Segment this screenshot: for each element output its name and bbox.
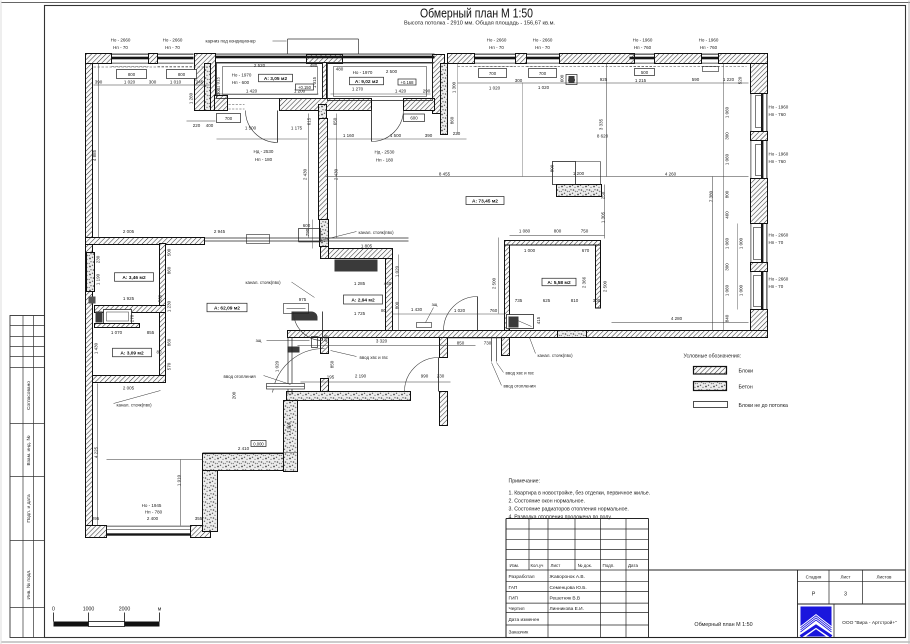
wall: right exterior seg2 bbox=[751, 132, 768, 141]
svg-text:245: 245 bbox=[196, 80, 204, 85]
svg-text:860: 860 bbox=[167, 338, 172, 346]
wall: kitchen door wall upper bbox=[321, 338, 329, 354]
fixture shaft a bbox=[96, 312, 103, 323]
svg-text:0: 0 bbox=[52, 607, 55, 613]
low wall room309 bbox=[95, 324, 140, 328]
svg-text:1 220: 1 220 bbox=[723, 77, 735, 82]
left strip row 4 bbox=[10, 367, 45, 369]
svg-text:Инв. № подл.: Инв. № подл. bbox=[26, 570, 32, 600]
ext line w4 bbox=[522, 83, 524, 177]
svg-text:Чертил: Чертил bbox=[509, 606, 525, 612]
svg-text:1 805: 1 805 bbox=[361, 244, 373, 249]
dim row loggia1 bbox=[217, 93, 319, 95]
window bottom-left bbox=[107, 526, 191, 536]
svg-text:1 260: 1 260 bbox=[189, 92, 194, 104]
svg-text:480: 480 bbox=[310, 63, 318, 68]
svg-text:А: 3,09 м2: А: 3,09 м2 bbox=[120, 350, 144, 356]
svg-text:Нп - 180: Нп - 180 bbox=[376, 158, 394, 163]
wall: top right segment a bbox=[448, 54, 475, 64]
window W2 top-left bbox=[158, 54, 194, 66]
svg-text:480: 480 bbox=[336, 67, 344, 72]
svg-text:1 060: 1 060 bbox=[725, 284, 730, 296]
sink inner bbox=[287, 308, 306, 310]
svg-text:600: 600 bbox=[410, 116, 418, 121]
row line bbox=[506, 569, 649, 571]
dim row 2410 bbox=[203, 452, 298, 454]
svg-text:ГИП: ГИП bbox=[509, 596, 519, 602]
window right wall R3 bbox=[751, 224, 767, 263]
sheet edge bottom bbox=[1, 641, 910, 643]
svg-text:1 175: 1 175 bbox=[291, 126, 303, 131]
svg-text:Нп - 70: Нп - 70 bbox=[769, 240, 784, 245]
svg-text:2 190: 2 190 bbox=[355, 374, 367, 379]
svg-text:2 500: 2 500 bbox=[492, 277, 497, 289]
bath vanity box bbox=[507, 315, 534, 329]
svg-text:Лист: Лист bbox=[551, 563, 561, 568]
wall: kitchen-living wall top concrete bbox=[319, 105, 327, 119]
svg-text:Подп. и дата: Подп. и дата bbox=[26, 494, 32, 523]
tb col stadia bbox=[828, 570, 830, 604]
svg-text:ввод хвс и гвс: ввод хвс и гвс bbox=[506, 371, 535, 376]
wall: wc right bbox=[386, 259, 393, 331]
left strip divider b bbox=[33, 316, 35, 638]
svg-text:Нп - 70: Нп - 70 bbox=[113, 45, 128, 50]
dim 2430 v right bbox=[336, 114, 338, 238]
svg-text:Нп - 780: Нп - 780 bbox=[145, 510, 163, 515]
dim row left windows bbox=[94, 84, 211, 86]
radiator 700 kitchen bbox=[217, 114, 241, 123]
radiator 800 b bbox=[167, 70, 197, 79]
left strip section 0 bbox=[10, 423, 45, 425]
loggia1 inner box bbox=[217, 63, 323, 99]
row line bbox=[506, 591, 649, 593]
door loggia2 bbox=[372, 110, 404, 142]
svg-text:800: 800 bbox=[550, 164, 555, 172]
svg-text:440: 440 bbox=[384, 281, 392, 286]
legend blocks symbol bbox=[694, 367, 727, 375]
svg-text:4 260: 4 260 bbox=[665, 172, 677, 177]
concrete: lower horizontal band bbox=[203, 454, 296, 471]
tb col list bbox=[862, 570, 864, 604]
svg-text:3 335: 3 335 bbox=[599, 118, 604, 130]
logo Вира-Артстрой bbox=[801, 607, 832, 637]
room area А: 5,58 м2 bbox=[542, 278, 576, 286]
wall: right exterior seg4 bbox=[751, 263, 768, 272]
svg-text:760: 760 bbox=[490, 308, 498, 313]
radiator 700 c bbox=[479, 69, 507, 78]
svg-text:700: 700 bbox=[489, 71, 497, 76]
loggia2 inner box bbox=[328, 63, 433, 101]
level +0.150 bbox=[296, 84, 314, 90]
svg-text:Стадия: Стадия bbox=[806, 575, 822, 580]
svg-text:зщ: зщ bbox=[256, 338, 262, 343]
svg-text:Нп - 70: Нп - 70 bbox=[489, 45, 504, 50]
radiator 500 bbox=[635, 69, 655, 76]
radiator right wall 4 bbox=[754, 276, 763, 307]
radiator small top-right bbox=[703, 67, 719, 72]
wall: top right segment b bbox=[516, 54, 527, 64]
svg-text:295: 295 bbox=[92, 516, 100, 521]
svg-text:1 305: 1 305 bbox=[601, 211, 606, 223]
svg-text:2 500: 2 500 bbox=[603, 280, 608, 292]
row line bbox=[506, 581, 649, 583]
svg-text:А: 5,58 м2: А: 5,58 м2 bbox=[547, 280, 571, 286]
door hall bbox=[444, 297, 478, 331]
svg-text:1 060: 1 060 bbox=[725, 153, 730, 165]
svg-text:Решетняк В.В: Решетняк В.В bbox=[550, 596, 581, 602]
ввод отопления 1 bbox=[224, 374, 291, 385]
title block row line bbox=[506, 528, 649, 530]
radiator 600 living bbox=[404, 114, 425, 122]
svg-text:3 320: 3 320 bbox=[376, 339, 388, 344]
wall: bottom-left wall east bbox=[191, 526, 211, 538]
svg-text:1 420: 1 420 bbox=[395, 89, 407, 94]
svg-text:2000: 2000 bbox=[119, 607, 131, 613]
radiator entrance striped bbox=[267, 384, 305, 390]
door entrance bbox=[405, 358, 439, 392]
room area А: 2,94 м2 bbox=[344, 295, 383, 304]
svg-text:Но - 2660: Но - 2660 bbox=[533, 38, 553, 43]
pipe riser b bbox=[496, 338, 498, 362]
svg-text:2 005: 2 005 bbox=[123, 229, 135, 234]
title block outer bbox=[506, 519, 906, 638]
wall: right exterior seg3 bbox=[751, 179, 768, 224]
wall: top right segment d bbox=[655, 54, 702, 64]
svg-text:1 910: 1 910 bbox=[177, 474, 182, 486]
dim row below bottom wall bbox=[448, 337, 504, 339]
svg-text:канал. стояк(пвх): канал. стояк(пвх) bbox=[538, 353, 574, 358]
wall: wc top bbox=[328, 249, 393, 259]
svg-text:2 500: 2 500 bbox=[386, 69, 398, 74]
left strip row 3 bbox=[10, 356, 45, 358]
svg-text:канал. стояк(пвх): канал. стояк(пвх) bbox=[117, 403, 153, 408]
svg-text:855: 855 bbox=[147, 330, 155, 335]
concrete: entrance band bbox=[287, 392, 411, 401]
svg-text:590: 590 bbox=[692, 77, 700, 82]
wall: stub below bottom wall bbox=[502, 338, 510, 356]
dim 1910 v bbox=[180, 460, 182, 526]
svg-text:зщ: зщ bbox=[432, 302, 438, 307]
svg-text:2 430: 2 430 bbox=[334, 168, 339, 180]
svg-text:Кол.уч: Кол.уч bbox=[531, 563, 544, 568]
wall: concrete sliver in corner pier bbox=[205, 64, 211, 111]
radiator 700 d bbox=[529, 69, 557, 78]
tb mid top bbox=[649, 569, 906, 571]
svg-text:80: 80 bbox=[156, 350, 162, 355]
svg-text:800: 800 bbox=[725, 190, 730, 198]
svg-text:1 215: 1 215 bbox=[635, 78, 647, 83]
svg-text:460: 460 bbox=[725, 211, 730, 219]
svg-text:8 620: 8 620 bbox=[597, 134, 609, 139]
svg-text:А: 3,05 м2: А: 3,05 м2 bbox=[264, 76, 288, 82]
svg-text:Взам. инд. №: Взам. инд. № bbox=[26, 436, 32, 466]
svg-text:860: 860 bbox=[167, 266, 172, 274]
svg-text:390: 390 bbox=[425, 133, 433, 138]
window right wall R4 bbox=[751, 272, 767, 310]
svg-text:Бетон: Бетон bbox=[739, 385, 753, 391]
svg-text:1 500: 1 500 bbox=[390, 133, 402, 138]
ввод хвс и гвс 2 bbox=[497, 363, 535, 376]
svg-text:520: 520 bbox=[738, 76, 743, 84]
svg-text:1 070: 1 070 bbox=[111, 330, 123, 335]
svg-text:670: 670 bbox=[582, 248, 590, 253]
dim row doors left bbox=[217, 138, 308, 140]
tb logo cell right bbox=[833, 604, 835, 638]
svg-text:1 300: 1 300 bbox=[452, 81, 457, 93]
wall: concrete section in bottom wall bbox=[558, 331, 587, 338]
svg-text:800: 800 bbox=[128, 72, 136, 77]
row line bbox=[506, 602, 649, 604]
title block row line bbox=[506, 549, 649, 551]
fixture shaft b bbox=[89, 297, 96, 304]
left strip row 1 bbox=[10, 336, 45, 338]
svg-text:700: 700 bbox=[225, 116, 233, 121]
svg-text:Изм.: Изм. bbox=[510, 563, 520, 568]
svg-text:Лист: Лист bbox=[841, 575, 852, 580]
scale bar bbox=[54, 613, 160, 627]
svg-text:1 500: 1 500 bbox=[245, 126, 257, 131]
svg-text:560: 560 bbox=[158, 294, 163, 302]
svg-text:615: 615 bbox=[307, 117, 312, 125]
svg-text:600: 600 bbox=[560, 74, 565, 82]
corridor line b bbox=[205, 240, 409, 242]
sheet edge left bbox=[0, 1, 2, 644]
svg-text:Нд - 2530: Нд - 2530 bbox=[254, 149, 274, 154]
карниз под кондиционер bbox=[206, 39, 287, 44]
fixture wc seat dark bbox=[292, 312, 318, 321]
svg-text:1 015: 1 015 bbox=[216, 76, 221, 88]
elec box зщ kitchen bbox=[312, 337, 318, 348]
title block col line bbox=[528, 519, 530, 571]
svg-text:4 225: 4 225 bbox=[94, 446, 99, 458]
tb lower col bbox=[547, 570, 549, 638]
wall: corner pier left of loggia bbox=[195, 54, 216, 111]
column ext h bbox=[576, 161, 601, 163]
radiator right wall 3 bbox=[754, 228, 763, 260]
wall: concrete strip right of loggia bbox=[441, 64, 448, 135]
wall: kitchen-living wall foot bbox=[321, 247, 329, 259]
svg-text:650: 650 bbox=[333, 117, 338, 125]
shaft box 800 bbox=[566, 75, 577, 85]
svg-text:Дата: Дата bbox=[628, 563, 638, 568]
svg-text:ввод отопления: ввод отопления bbox=[504, 384, 537, 389]
svg-text:Но - 2660: Но - 2660 bbox=[769, 233, 789, 238]
svg-text:канал. стояк(пвх): канал. стояк(пвх) bbox=[246, 280, 282, 285]
room area А: 3,05 м2 bbox=[259, 74, 293, 82]
svg-text:Высота потолка - 2910 мм. Обща: Высота потолка - 2910 мм. Общая площадь … bbox=[404, 21, 555, 27]
svg-text:220: 220 bbox=[193, 123, 201, 128]
svg-text:Подп.: Подп. bbox=[603, 563, 615, 568]
svg-text:860: 860 bbox=[450, 116, 455, 124]
svg-text:Но - 1960: Но - 1960 bbox=[769, 152, 789, 157]
wall: kitchen-living wall bbox=[319, 119, 328, 220]
svg-text:Но - 1970: Но - 1970 bbox=[353, 70, 373, 75]
svg-text:80: 80 bbox=[381, 308, 387, 313]
dim row entrance bbox=[301, 381, 451, 383]
svg-text:А: 2,94 м2: А: 2,94 м2 bbox=[351, 297, 375, 303]
svg-text:Нп - 760: Нп - 760 bbox=[700, 45, 718, 50]
svg-text:Нп - 760: Нп - 760 bbox=[769, 159, 787, 164]
thin wall a bbox=[287, 338, 289, 395]
dim 4280 row bbox=[612, 322, 749, 324]
svg-text:№ док.: № док. bbox=[578, 563, 592, 568]
svg-text:Нп - 70: Нп - 70 bbox=[535, 45, 550, 50]
svg-text:1 905: 1 905 bbox=[287, 421, 292, 433]
wall: below loggia seg2 bbox=[280, 99, 372, 111]
svg-text:400: 400 bbox=[206, 123, 214, 128]
svg-text:300: 300 bbox=[593, 298, 601, 303]
wall: bath left bbox=[505, 245, 510, 331]
tb right sect left bbox=[797, 570, 799, 638]
svg-text:Обмерный план М 1:50: Обмерный план М 1:50 bbox=[420, 7, 533, 21]
svg-text:790: 790 bbox=[305, 228, 310, 236]
svg-text:4 885: 4 885 bbox=[92, 149, 97, 161]
wall: top right segment c bbox=[560, 54, 635, 64]
cabinet зщ hall bbox=[417, 323, 432, 328]
svg-text:1000: 1000 bbox=[83, 607, 95, 613]
svg-text:Нп - 70: Нп - 70 bbox=[769, 284, 784, 289]
column ext v bbox=[600, 162, 602, 185]
row line bbox=[506, 612, 649, 614]
svg-text:925: 925 bbox=[600, 77, 608, 82]
svg-text:1 925: 1 925 bbox=[123, 296, 135, 301]
svg-text:390: 390 bbox=[95, 80, 103, 85]
radiator 800 a bbox=[117, 70, 147, 79]
svg-text:Но - 1960: Но - 1960 bbox=[699, 38, 719, 43]
svg-text:600: 600 bbox=[303, 223, 311, 228]
dim row loggia2 bbox=[331, 93, 431, 95]
duct box base bbox=[299, 241, 321, 243]
svg-text:Жаворонок А.В.: Жаворонок А.В. bbox=[550, 574, 585, 580]
svg-text:Примечание:: Примечание: bbox=[509, 479, 540, 485]
svg-text:Согласовано: Согласовано bbox=[26, 381, 32, 410]
title block col line bbox=[600, 519, 602, 571]
svg-text:500: 500 bbox=[641, 70, 649, 75]
svg-text:1 430: 1 430 bbox=[411, 307, 423, 312]
title block col line bbox=[574, 519, 576, 571]
svg-text:Нп - 760: Нп - 760 bbox=[634, 45, 652, 50]
svg-text:Линникова Е.И.: Линникова Е.И. bbox=[550, 606, 584, 612]
duct box bbox=[299, 229, 321, 242]
svg-text:Но - 2660: Но - 2660 bbox=[163, 38, 183, 43]
title block row line bbox=[506, 538, 649, 540]
svg-text:Но - 1960: Но - 1960 bbox=[633, 38, 653, 43]
svg-text:1. Квартира в новостройке, без: 1. Квартира в новостройке, без отделки, … bbox=[509, 490, 651, 497]
svg-text:0.000: 0.000 bbox=[253, 441, 264, 446]
svg-text:А: 9,02 м2: А: 9,02 м2 bbox=[355, 79, 379, 85]
svg-text:1 010: 1 010 bbox=[170, 80, 182, 85]
window W5 top-right bbox=[630, 54, 655, 66]
svg-text:2 005: 2 005 bbox=[123, 386, 135, 391]
svg-text:800: 800 bbox=[395, 301, 400, 309]
sheet edge top bbox=[1, 2, 910, 4]
fixture duct dark bbox=[569, 76, 575, 83]
leader зщ hall bbox=[426, 308, 434, 323]
svg-text:800: 800 bbox=[178, 72, 186, 77]
svg-text:ввод хвс и гвс: ввод хвс и гвс bbox=[360, 355, 389, 360]
tb lower col bbox=[600, 570, 602, 638]
svg-text:1 020: 1 020 bbox=[124, 80, 136, 85]
radiator right wall 1 bbox=[756, 96, 763, 128]
dim row 1910h bbox=[107, 459, 203, 461]
title block col line bbox=[625, 519, 627, 571]
window W3 top-right bbox=[475, 54, 516, 66]
svg-text:А: 3,46 м2: А: 3,46 м2 bbox=[122, 275, 146, 281]
svg-text:990: 990 bbox=[421, 374, 429, 379]
канал. стояк(пвх) 4 bbox=[530, 338, 574, 359]
dim 4225 v bbox=[97, 384, 99, 526]
row line bbox=[506, 624, 649, 626]
wall: top right segment e bbox=[719, 54, 768, 64]
wall: concrete section left wall bbox=[87, 253, 95, 292]
svg-text:Разработал: Разработал bbox=[509, 574, 535, 580]
svg-text:300: 300 bbox=[725, 263, 730, 271]
svg-text:Нд - 2530: Нд - 2530 bbox=[375, 150, 395, 155]
svg-text:карниз под кондиционер: карниз под кондиционер bbox=[206, 39, 257, 44]
left strip section 1 bbox=[10, 476, 45, 478]
legend low blocks symbol bbox=[694, 402, 728, 408]
ввод хвс и гвс 1 bbox=[331, 351, 389, 361]
fixture bath dark bbox=[509, 317, 519, 328]
cornice bracket bbox=[288, 39, 359, 55]
svg-text:220: 220 bbox=[453, 131, 461, 136]
svg-text:1 020: 1 020 bbox=[489, 86, 501, 91]
dim row bath top bbox=[510, 235, 605, 237]
fixture wc vanity bbox=[335, 260, 378, 272]
left strip divider a bbox=[22, 316, 24, 638]
wall: bottom of living room bbox=[288, 331, 768, 338]
svg-text:ГАП: ГАП bbox=[509, 585, 518, 591]
wall: top-left segment bbox=[86, 54, 112, 64]
level 0.000 bbox=[251, 441, 266, 447]
wall: loggia mid pier bbox=[307, 55, 343, 64]
svg-text:840: 840 bbox=[725, 314, 730, 322]
dim line 8620 vertical bbox=[606, 64, 608, 177]
svg-text:А: 62,09 м2: А: 62,09 м2 bbox=[214, 305, 240, 311]
svg-text:1 060: 1 060 bbox=[725, 106, 730, 118]
concrete: mid vertical bbox=[284, 401, 298, 472]
thin wall b bbox=[291, 338, 293, 395]
title block col line bbox=[547, 519, 549, 571]
ext line 1300 bbox=[457, 64, 459, 135]
svg-text:810: 810 bbox=[571, 298, 579, 303]
dim line left vertical bbox=[98, 64, 100, 238]
svg-text:1 000: 1 000 bbox=[739, 237, 744, 249]
svg-text:1 020: 1 020 bbox=[538, 85, 550, 90]
left strip section 3 bbox=[10, 607, 45, 609]
dashed sill row left bbox=[94, 66, 211, 68]
wall: below loggia seg3 bbox=[404, 99, 435, 111]
wall: corridor top bbox=[86, 238, 205, 245]
wall: left exterior bbox=[86, 54, 93, 538]
svg-text:1 060: 1 060 bbox=[725, 237, 730, 249]
svg-text:270: 270 bbox=[130, 314, 135, 322]
room area А: 9,02 м2 bbox=[350, 77, 384, 85]
window right wall R2 bbox=[751, 141, 767, 179]
wall: loggia right wall bbox=[433, 55, 445, 114]
dim v 2500 bath bbox=[498, 238, 500, 314]
svg-text:850: 850 bbox=[330, 360, 335, 368]
sheet edge right bbox=[908, 1, 910, 644]
svg-text:1 020: 1 020 bbox=[275, 360, 280, 372]
svg-text:Заказчик: Заказчик bbox=[509, 629, 530, 635]
svg-text:Блоки: Блоки bbox=[739, 369, 754, 375]
loggia glazing band bbox=[216, 54, 435, 62]
tb lower col bbox=[625, 570, 627, 638]
wall: storeroom right wall upper bbox=[160, 244, 166, 306]
svg-text:1 190: 1 190 bbox=[96, 273, 101, 285]
svg-text:Но - 2660: Но - 2660 bbox=[487, 38, 507, 43]
